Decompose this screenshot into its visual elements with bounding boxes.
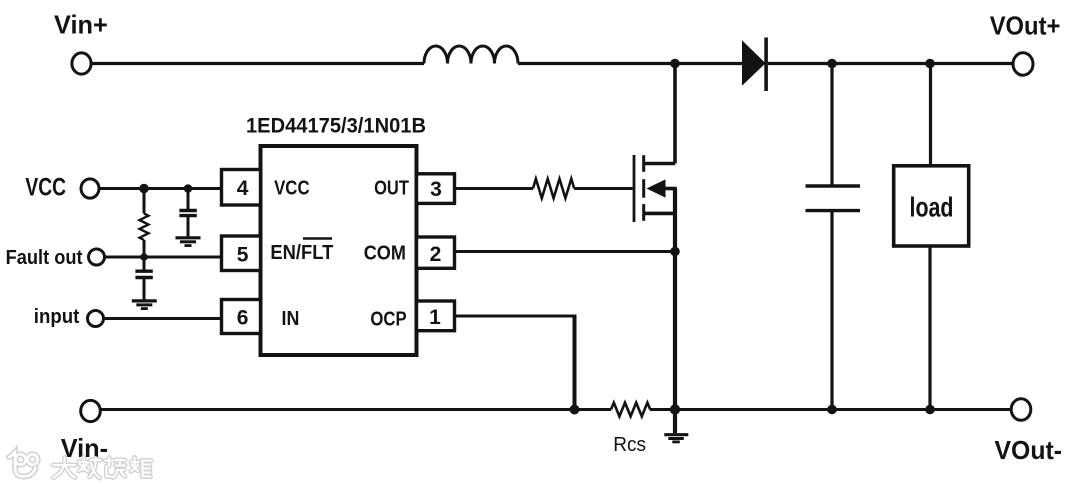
wire OCP pin1 right xyxy=(455,315,577,318)
arrow stem xyxy=(664,187,677,191)
ground (under C1) xyxy=(176,238,201,246)
svg-text:OCP: OCP xyxy=(370,309,406,331)
svg-text:COM: COM xyxy=(364,243,406,265)
overline FLT xyxy=(303,237,332,240)
capacitor C2 (fault line) xyxy=(135,257,152,300)
svg-text:OUT: OUT xyxy=(374,178,409,200)
channel dash bottom xyxy=(642,204,645,221)
junction dot (fault/R1/C2) xyxy=(140,253,148,261)
wire input to pin6 xyxy=(104,317,222,320)
junction dot (VCC/C1) xyxy=(184,184,193,193)
svg-text:input: input xyxy=(34,306,80,328)
diode D1 xyxy=(742,38,768,92)
source tap xyxy=(644,212,675,216)
capacitor C1 (VCC decoupling) xyxy=(179,189,196,237)
junction dot (bottom rail / load) xyxy=(925,405,935,415)
watermark text (CJK approximation) xyxy=(53,458,151,479)
wire top rail left (Vin+ to inductor) xyxy=(92,62,424,65)
svg-text:Vin+: Vin+ xyxy=(54,10,108,40)
body arrow xyxy=(647,179,666,197)
wire resistor to gate xyxy=(574,187,632,190)
svg-text:IN: IN xyxy=(282,308,300,330)
pin 1 box xyxy=(417,301,455,331)
terminal VOut- xyxy=(1011,399,1031,421)
wire bottom rail right (Rcs to VOut-) xyxy=(650,408,1011,411)
svg-text:VOut-: VOut- xyxy=(995,435,1063,465)
junction dot (COM/source) xyxy=(670,247,680,257)
junction dot (bottom rail / cap) xyxy=(827,405,837,415)
ground (under C2) xyxy=(132,301,157,309)
pin 5 box xyxy=(222,236,261,271)
terminal Fault out xyxy=(89,249,105,265)
junction dot (VCC/R1) xyxy=(139,184,149,194)
resistor Rcs xyxy=(611,403,650,417)
wire load top xyxy=(929,64,932,166)
svg-text:3: 3 xyxy=(430,178,442,201)
pin 3 box xyxy=(417,174,455,204)
wire COM pin2 to source xyxy=(455,250,676,253)
terminal VCC xyxy=(81,179,99,198)
svg-text:VCC: VCC xyxy=(25,173,66,201)
svg-text:load: load xyxy=(910,192,954,223)
resistor R1 (VCC to fault line) xyxy=(140,189,149,258)
junction dot (top rail / cap) xyxy=(827,59,837,69)
junction dot (top rail / drain) xyxy=(670,59,680,69)
load box xyxy=(894,166,969,246)
wire Fault out to pin5 xyxy=(105,256,223,259)
capacitor C3 (output) xyxy=(806,64,861,410)
pin 6 box xyxy=(222,300,261,334)
svg-text:VCC: VCC xyxy=(274,178,310,200)
channel dash top xyxy=(642,155,645,172)
inductor L1 xyxy=(424,46,518,64)
drain tap xyxy=(644,162,675,166)
svg-text:2: 2 xyxy=(430,243,442,266)
pin 2 box xyxy=(417,237,455,268)
svg-text:6: 6 xyxy=(237,307,249,330)
wire OCP down to bottom rail xyxy=(573,315,577,410)
wire top rail right (diode to VOut+) xyxy=(768,62,1013,65)
ground (below source junction) xyxy=(664,410,688,442)
transistor Q1 MOSFET xyxy=(634,155,677,222)
watermark logo xyxy=(9,453,38,477)
resistor Rg (gate) xyxy=(533,179,574,198)
svg-text:5: 5 xyxy=(237,244,249,267)
svg-text:1ED44175/3/1N01B: 1ED44175/3/1N01B xyxy=(246,114,426,137)
wire source vertical down to bottom rail xyxy=(673,189,677,410)
pin 4 box xyxy=(222,170,261,206)
wire bottom rail left (Vin- to Rcs) xyxy=(101,408,611,411)
junction dot (bottom rail / source) xyxy=(670,404,680,414)
gate bar xyxy=(633,155,636,222)
IC U1 1ED44175/3/1N01B body xyxy=(261,146,417,355)
channel dash mid xyxy=(642,179,645,198)
svg-text:4: 4 xyxy=(237,177,249,200)
wire OUT pin3 to gate resistor xyxy=(455,187,534,190)
junction dot (bottom rail / OCP) xyxy=(570,405,580,415)
junction dot (top rail / load) xyxy=(925,59,935,69)
terminal Vin- xyxy=(81,400,101,421)
svg-text:VOut+: VOut+ xyxy=(990,11,1061,41)
svg-text:EN/FLT: EN/FLT xyxy=(270,242,333,264)
svg-text:Fault out: Fault out xyxy=(6,247,83,269)
svg-text:Rcs: Rcs xyxy=(613,434,646,456)
terminal input xyxy=(88,311,104,327)
svg-text:1: 1 xyxy=(429,306,441,329)
wire load bottom xyxy=(928,246,931,410)
wire drain vertical to top rail xyxy=(673,64,677,164)
wire top rail mid (inductor to diode) xyxy=(518,62,743,65)
terminal VOut+ xyxy=(1013,53,1033,75)
wire VCC to pin4 xyxy=(99,187,222,190)
terminal Vin+ xyxy=(72,53,91,74)
